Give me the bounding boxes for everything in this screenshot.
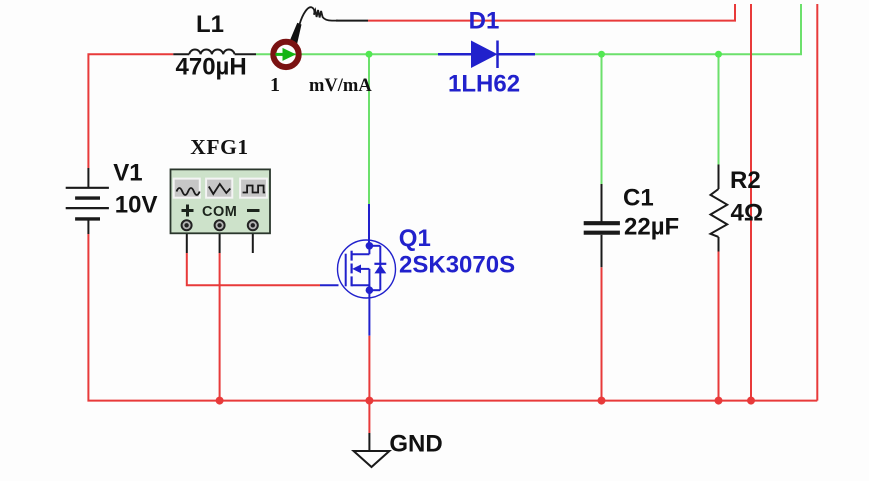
wire green: Q1 drain branch down from node xyxy=(368,54,370,204)
wire green: C1 top branch xyxy=(601,54,603,184)
svg-text:22µF: 22µF xyxy=(624,214,679,241)
wire blue: Q1 source lead down xyxy=(368,290,370,336)
svg-text:470µH: 470µH xyxy=(176,54,247,81)
svg-text:4Ω: 4Ω xyxy=(731,200,764,227)
transistor Q1 (NMOS) xyxy=(338,240,396,298)
wire green: R2 top branch xyxy=(718,54,720,164)
wire blue: Q1 drain lead xyxy=(368,204,370,246)
wire red: XFG1 COM to bottom bus xyxy=(219,253,221,401)
wire green: L1 right lead to diode anode (net through current probe) xyxy=(256,53,438,55)
wire black: XFG1 minus pin stub (unconnected) xyxy=(252,233,254,253)
wire black: XFG1 COM pin stub xyxy=(219,233,221,253)
node: red junction C1 on bus xyxy=(598,397,606,405)
svg-text:D1: D1 xyxy=(469,8,500,35)
node: green junction at R2 branch xyxy=(715,51,722,58)
svg-text:GND: GND xyxy=(389,431,442,458)
svg-text:XFG1: XFG1 xyxy=(190,135,249,159)
wire green: diode cathode to right side, corner up at x=801 xyxy=(535,4,801,54)
svg-text:1: 1 xyxy=(270,74,280,96)
svg-text:V1: V1 xyxy=(113,159,142,186)
wire red: C1 bottom to bus xyxy=(601,267,603,400)
ground symbol xyxy=(354,451,390,467)
svg-text:COM: COM xyxy=(202,204,237,220)
diode D1 xyxy=(438,41,535,69)
wire red: bus to ground stub xyxy=(368,401,370,433)
node: red junction Q1 source / GND on bus xyxy=(365,397,373,405)
wire red: R2 bottom to bus xyxy=(718,252,720,401)
current probe XCP1 xyxy=(273,7,338,67)
svg-text:C1: C1 xyxy=(623,185,654,212)
wire red: vertical x=751 from top to bottom bus xyxy=(750,4,752,401)
node: green junction at Q1 drain branch xyxy=(366,51,373,58)
svg-text:1LH62: 1LH62 xyxy=(448,71,520,98)
resistor R2 xyxy=(711,165,728,252)
node: red junction R2 on bus xyxy=(715,397,723,405)
wire black: XFG1 + pin stub xyxy=(186,233,188,253)
svg-text:mV/mA: mV/mA xyxy=(309,76,372,96)
function generator XFG1 xyxy=(171,169,271,233)
wire red: XFG1 + pin to Q1 gate xyxy=(187,253,320,285)
wire red: battery positive up and over to L1 xyxy=(88,54,173,168)
node: red junction x=751 on bus xyxy=(747,397,755,405)
svg-text:R2: R2 xyxy=(730,167,761,194)
wire red: bottom ground bus xyxy=(88,234,817,401)
wire black+red: current probe cable to top right corner xyxy=(336,20,368,22)
wire black: ground lead xyxy=(368,433,370,451)
inductor L1 xyxy=(173,50,256,55)
svg-text:L1: L1 xyxy=(196,11,224,38)
wire red: Q1 source to bus xyxy=(368,336,370,401)
wire blue: Q1 gate lead xyxy=(320,284,339,286)
battery V1 xyxy=(66,168,109,234)
node: red junction COM on bus xyxy=(216,397,224,405)
wire red: vertical x=817 from top corner into bottom bus xyxy=(816,4,818,401)
svg-text:10V: 10V xyxy=(115,191,158,218)
svg-text:Q1: Q1 xyxy=(399,225,431,252)
svg-text:2SK3070S: 2SK3070S xyxy=(399,252,515,279)
capacitor C1 xyxy=(584,184,620,267)
node: green junction at C1 branch xyxy=(598,51,605,58)
